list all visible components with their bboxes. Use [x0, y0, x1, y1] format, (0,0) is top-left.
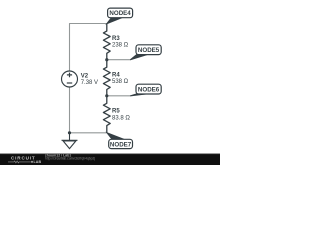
svg-text:R3: R3 — [112, 36, 120, 42]
svg-text:238 Ω: 238 Ω — [112, 43, 129, 49]
wire bottom: ground junction to chain bottom — [70, 132, 107, 134]
resistor R4 — [103, 60, 110, 96]
svg-text:83.8 Ω: 83.8 Ω — [112, 115, 130, 121]
svg-text:V2: V2 — [81, 73, 89, 79]
svg-text:LAB: LAB — [34, 160, 42, 164]
svg-text:CIRCUIT: CIRCUIT — [11, 156, 36, 161]
resistor R5 — [103, 96, 110, 133]
svg-text:7.38 V: 7.38 V — [81, 80, 98, 86]
junction: ground node — [68, 131, 71, 134]
svg-text:NODE6: NODE6 — [138, 87, 160, 94]
svg-text:538 Ω: 538 Ω — [112, 79, 129, 85]
wire: node5 stub to NODE5 label — [107, 59, 131, 61]
svg-text:http://circuitlab.com/c6d7qh4q: http://circuitlab.com/c6d7qh4qbp2j — [45, 157, 95, 161]
voltage source V2 — [62, 71, 78, 87]
svg-text:NODE7: NODE7 — [110, 141, 132, 148]
node NODE7 label — [107, 133, 133, 149]
resistor R3 — [103, 24, 110, 60]
node NODE6 label — [130, 84, 161, 96]
svg-text:R5: R5 — [112, 108, 120, 114]
wire: source bottom to ground junction — [69, 87, 71, 133]
wire top: source to resistor chain — [70, 24, 107, 72]
node NODE4 label — [107, 8, 133, 24]
junction: node6 — [105, 94, 108, 97]
junction: node5 — [105, 58, 108, 61]
node NODE5 label — [130, 45, 161, 60]
ground — [62, 133, 78, 149]
svg-text:NODE4: NODE4 — [109, 10, 131, 17]
wire: node6 stub to NODE6 label — [107, 95, 131, 97]
svg-text:R4: R4 — [112, 72, 120, 78]
footer bar — [0, 154, 220, 166]
svg-text:NODE5: NODE5 — [138, 47, 160, 54]
